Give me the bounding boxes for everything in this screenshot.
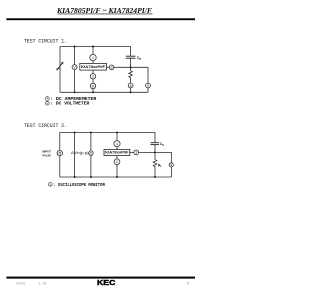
- svg-text:2003.: 2003.: [16, 282, 26, 286]
- svg-text:TEST CIRCUIT 2.: TEST CIRCUIT 2.: [24, 123, 67, 129]
- svg-text:3: 3: [135, 151, 137, 155]
- svg-text:V: V: [46, 101, 48, 105]
- svg-text:KIA78xxPI/F: KIA78xxPI/F: [105, 151, 129, 155]
- svg-text:S: S: [170, 163, 172, 167]
- svg-text:KIA7805PI/F ~ KIA7824PI/F: KIA7805PI/F ~ KIA7824PI/F: [56, 6, 152, 15]
- svg-text:PULSE: PULSE: [43, 153, 51, 157]
- svg-text:S: S: [49, 182, 51, 186]
- svg-text:1: 1: [116, 142, 118, 146]
- svg-text:2: 2: [92, 75, 94, 79]
- svg-text:: DC AMPEREMETER: : DC AMPEREMETER: [50, 98, 97, 102]
- svg-text:7: 7: [187, 281, 189, 285]
- svg-text:1. 14: 1. 14: [38, 282, 47, 286]
- svg-text:TEST CIRCUIT 1.: TEST CIRCUIT 1.: [24, 39, 67, 45]
- svg-text:3: 3: [111, 66, 113, 70]
- svg-text:O: O: [162, 144, 164, 147]
- svg-text:2: 2: [116, 160, 118, 164]
- svg-text:KEC: KEC: [97, 278, 115, 287]
- svg-text:ΔVin(p-p): ΔVin(p-p): [71, 151, 89, 155]
- svg-text:A: A: [46, 97, 48, 101]
- svg-text:O: O: [139, 58, 141, 61]
- svg-text:: OSCILLOSCOPE MONITOR: : OSCILLOSCOPE MONITOR: [53, 184, 105, 188]
- svg-text:KIA78xxPI/F: KIA78xxPI/F: [81, 65, 106, 69]
- svg-text:S: S: [90, 151, 92, 155]
- svg-text:1: 1: [92, 56, 94, 60]
- svg-text:: DC VOLTMETER: : DC VOLTMETER: [50, 103, 90, 107]
